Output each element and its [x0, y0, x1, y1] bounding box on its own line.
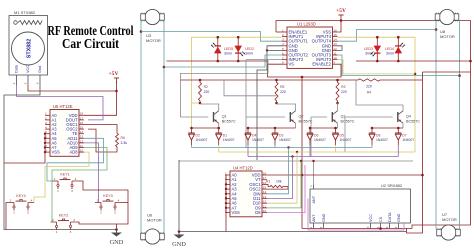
wire diode bottom leads: [274, 145, 276, 148]
svg-text:LED4: LED4: [385, 47, 394, 51]
svg-text:BC557C: BC557C: [341, 119, 355, 123]
svg-text:Data: Data: [15, 64, 19, 73]
svg-text:10: 10: [333, 56, 337, 60]
wire HT12D address pins to ground: [225, 175, 227, 232]
svg-text:3mm: 3mm: [224, 52, 232, 56]
transistor Q1 BC557C: [200, 104, 219, 111]
wire antenna drop to SRX882: [313, 161, 315, 185]
svg-text:4: 4: [118, 199, 120, 203]
svg-text:D4: D4: [252, 133, 256, 137]
wire left motors to OUTPUT1: [140, 21, 142, 234]
SRX882 pin GND: [323, 223, 325, 229]
svg-text:1: 1: [309, 226, 313, 228]
svg-text:2: 2: [54, 177, 56, 181]
svg-text:1: 1: [100, 210, 102, 214]
LED LED4: [395, 47, 402, 53]
diode D6 1N4007: [309, 128, 311, 133]
svg-text:2: 2: [24, 82, 28, 84]
svg-text:GND: GND: [172, 241, 186, 248]
svg-text:Gnd: Gnd: [38, 66, 42, 73]
svg-text:220: 220: [341, 90, 347, 94]
svg-text:CS: CS: [379, 216, 383, 222]
svg-text:220: 220: [280, 90, 286, 94]
svg-text:15: 15: [80, 126, 84, 130]
svg-text:KEY3: KEY3: [103, 194, 112, 198]
diode D8 1N4007: [371, 128, 373, 133]
wire LED vertical at x=377.3: [376, 37, 378, 61]
wire D9 (green): [267, 161, 301, 208]
svg-text:3: 3: [114, 210, 116, 214]
wire diode pair rail D2-D1: [192, 127, 219, 129]
wire band below diodes: purple row: [247, 145, 249, 157]
resistor R4 220 (inline horizontal): [356, 79, 382, 81]
svg-text:MOTOR: MOTOR: [442, 217, 457, 222]
svg-text:Q2: Q2: [299, 115, 304, 119]
svg-text:D5: D5: [340, 133, 344, 137]
svg-text:Car Circuit: Car Circuit: [62, 36, 119, 51]
svg-text:U1 L293D: U1 L293D: [297, 21, 316, 26]
transistor Q3 BC557C: [337, 103, 339, 111]
svg-text:R5: R5: [280, 85, 284, 89]
resistor R2 220: [199, 79, 202, 82]
svg-text:3: 3: [366, 226, 370, 228]
svg-text:1: 1: [57, 189, 59, 193]
svg-text:1N4007: 1N4007: [279, 138, 291, 142]
svg-text:3: 3: [282, 38, 284, 42]
svg-text:220: 220: [204, 90, 210, 94]
svg-text:3: 3: [45, 121, 47, 125]
SRX882 pin ANT (top): [313, 185, 315, 190]
svg-text:13: 13: [263, 195, 267, 199]
wire LED bottom rail left: [167, 60, 268, 62]
wire +5V to HT12E VDD: [84, 91, 117, 115]
svg-text:4: 4: [75, 177, 77, 181]
ground junction: [116, 224, 118, 230]
svg-text:Q4: Q4: [406, 115, 411, 119]
svg-text:R1: R1: [266, 180, 270, 184]
wire +5V transistor rail y=80: [180, 79, 356, 81]
svg-text:LED5: LED5: [224, 47, 233, 51]
wire +5V rail: [276, 31, 282, 33]
svg-text:3mm: 3mm: [245, 52, 253, 56]
svg-text:GND: GND: [110, 239, 124, 246]
wire INPUT2 long route (gray): [181, 60, 269, 80]
svg-text:VCC: VCC: [369, 214, 373, 222]
wire diode pair rail D4-D3: [248, 127, 296, 129]
svg-text:11: 11: [263, 204, 266, 208]
svg-text:3mm: 3mm: [365, 52, 373, 56]
wire band below diodes: gray rail: [179, 160, 413, 162]
resistor R6 3.3k (HT12E oscillator): [84, 125, 117, 132]
diode D7 1N4007: [397, 128, 399, 133]
svg-text:3: 3: [70, 230, 72, 234]
SRX882 pin GND: [398, 223, 400, 229]
motor U7 (rear-right): [441, 225, 456, 240]
svg-text:D7: D7: [402, 133, 406, 137]
svg-text:4: 4: [31, 199, 33, 203]
wire LED top rail (yellow, right): [338, 37, 416, 152]
wire band below diodes: yellow row: [218, 145, 220, 152]
LED LED2: [235, 46, 242, 52]
wire AD9 to KEY2 (green): [52, 148, 107, 223]
svg-text:6: 6: [282, 51, 284, 55]
svg-text:5: 5: [385, 226, 389, 228]
svg-text:13: 13: [333, 42, 337, 46]
wire VDD to +5V: [267, 174, 302, 176]
svg-text:220: 220: [366, 85, 372, 89]
wire diode pair rail D6-D5: [310, 127, 338, 129]
svg-text:1N4007: 1N4007: [196, 138, 208, 142]
svg-text:+5V: +5V: [336, 8, 346, 14]
wire left motors to OUTPUT2: [163, 21, 165, 234]
svg-text:1N4007: 1N4007: [402, 138, 414, 142]
encoder IC U5 HT12E: [50, 110, 79, 157]
svg-text:DATA: DATA: [388, 212, 392, 222]
motor U6 (rear-left): [145, 229, 160, 244]
svg-text:MOTOR: MOTOR: [440, 34, 455, 39]
transistor Q2 BC557C: [277, 104, 296, 111]
svg-text:1N4007: 1N4007: [252, 138, 264, 142]
driver IC U1 L293D: [287, 27, 333, 68]
wire Q2 base / INPUT2: [246, 116, 285, 118]
svg-text:KEY4: KEY4: [16, 194, 25, 198]
svg-text:BC557C: BC557C: [406, 119, 420, 123]
svg-text:2: 2: [319, 226, 323, 228]
diode D5 1N4007: [335, 128, 337, 133]
wire L293D GND pins down: [267, 46, 282, 51]
ground rail (receiver): [179, 231, 407, 233]
wire D10 (yellow): [267, 152, 297, 203]
wire rail drop at 224: [224, 80, 277, 96]
svg-text:8: 8: [282, 61, 284, 65]
wire right motors to OUTPUT4: [435, 21, 437, 230]
wire DIN (teal): [267, 148, 289, 194]
svg-text:14: 14: [333, 38, 337, 42]
svg-text:16: 16: [80, 121, 84, 125]
svg-text:MOTOR: MOTOR: [146, 38, 161, 43]
wire HT12E address pins to ground: [4, 134, 45, 163]
svg-text:D8: D8: [255, 210, 261, 215]
svg-text:D8: D8: [376, 133, 380, 137]
svg-text:2: 2: [97, 199, 99, 203]
svg-text:1: 1: [13, 210, 15, 214]
wire INPUT3 (yellow): [338, 60, 416, 74]
wire right +5V branch: [423, 71, 471, 73]
svg-text:3mm: 3mm: [386, 52, 394, 56]
wire LED bottom rail right: [356, 60, 471, 62]
svg-text:ANT: ANT: [312, 214, 316, 222]
ground GND (receiver): [178, 232, 180, 235]
svg-text:1: 1: [309, 185, 313, 187]
svg-text:1: 1: [45, 112, 47, 116]
svg-text:12: 12: [263, 200, 267, 204]
svg-text:MOTOR: MOTOR: [147, 218, 162, 223]
diode D3 1N4007: [274, 128, 276, 133]
diode D4 1N4007: [247, 128, 249, 133]
diode D2 1N4007: [191, 128, 193, 133]
svg-text:3: 3: [27, 210, 29, 214]
resistor R3 220: [336, 79, 339, 82]
svg-text:12: 12: [333, 47, 337, 51]
svg-text:U5 HT12E: U5 HT12E: [53, 104, 73, 109]
svg-text:1: 1: [225, 171, 227, 175]
svg-text:Q1: Q1: [222, 115, 227, 119]
wire right motors to OUTPUT3: [459, 21, 461, 230]
svg-text:12: 12: [80, 139, 84, 143]
diode D1 1N4007: [218, 128, 220, 133]
svg-text:1: 1: [12, 82, 16, 84]
wire AD10 to KEY3 (purple): [84, 143, 99, 203]
svg-text:STX882: STX882: [26, 39, 32, 58]
svg-text:1N4007: 1N4007: [340, 138, 352, 142]
wire Data to HT12E DOUT: [17, 85, 104, 120]
svg-text:3: 3: [71, 189, 73, 193]
svg-text:D6: D6: [314, 133, 318, 137]
svg-text:R6: R6: [121, 136, 125, 140]
svg-text:10k: 10k: [276, 180, 282, 184]
svg-text:3.3k: 3.3k: [121, 141, 128, 145]
wire KEY1/KEY3 grounds: [78, 181, 128, 224]
SRX882 pin CS: [380, 223, 382, 229]
svg-text:1: 1: [56, 230, 58, 234]
svg-text:1N4007: 1N4007: [223, 138, 235, 142]
wire receiver power rail: [302, 228, 412, 230]
svg-text:5: 5: [282, 47, 284, 51]
wire KEY4 left to ground rail: [6, 203, 8, 230]
svg-text:D2: D2: [196, 133, 200, 137]
svg-text:4: 4: [282, 42, 284, 46]
decoder IC U4 HT12D: [230, 171, 262, 217]
svg-text:KEY1: KEY1: [60, 173, 69, 177]
wire Gnd to left ground rail: [4, 85, 117, 230]
svg-text:10: 10: [263, 209, 267, 213]
svg-text:2: 2: [394, 226, 398, 228]
svg-text:LED3: LED3: [364, 47, 373, 51]
wire LED top rail (yellow, left): [192, 36, 283, 38]
svg-text:18: 18: [263, 171, 267, 175]
svg-text:D1: D1: [223, 133, 227, 137]
svg-text:VSS: VSS: [232, 210, 241, 215]
wire pink data loop: [308, 199, 404, 231]
svg-text:VS: VS: [289, 62, 295, 67]
svg-text:2: 2: [10, 199, 12, 203]
wire LED vertical at x=217.8: [217, 37, 219, 61]
svg-text:AD8: AD8: [69, 150, 78, 155]
svg-text:17: 17: [80, 116, 84, 120]
svg-text:BC557C: BC557C: [222, 119, 236, 123]
svg-text:ENABLE2: ENABLE2: [312, 62, 331, 67]
svg-text:16: 16: [333, 28, 337, 32]
svg-text:1: 1: [282, 28, 284, 32]
svg-text:10: 10: [80, 149, 84, 153]
svg-text:18: 18: [80, 112, 84, 116]
wire VS/ENABLE2 loop (+5V): [268, 64, 342, 77]
wire VCC to +5V: [28, 85, 117, 91]
wire Q1 base: [181, 80, 209, 117]
svg-text:R4: R4: [367, 91, 371, 95]
svg-text:11: 11: [333, 51, 336, 55]
svg-text:LED2: LED2: [245, 47, 254, 51]
wire +5V down to HT12D VDD: [301, 77, 303, 229]
svg-text:15: 15: [333, 33, 337, 37]
wire Q3 base: [311, 116, 327, 118]
SRX882 pin ANT: [313, 223, 315, 229]
svg-text:1N4007: 1N4007: [314, 138, 326, 142]
svg-text:1N4007: 1N4007: [376, 138, 388, 142]
motor U3 (front-left): [145, 9, 160, 24]
svg-text:ANT: ANT: [312, 195, 316, 203]
wire Q4 base: [345, 116, 393, 118]
svg-text:R3: R3: [341, 85, 345, 89]
svg-text:GND: GND: [397, 213, 401, 222]
wire AD11 to KEY1 (teal): [47, 138, 104, 181]
SRX882 pin DATA: [389, 223, 391, 229]
wire AD8 to KEY4 (yellow): [34, 152, 89, 202]
svg-text:15: 15: [263, 186, 267, 190]
svg-text:M1 STX882: M1 STX882: [14, 10, 36, 15]
wire diode pair rail D8-D7: [372, 127, 403, 129]
svg-text:U2 SRX882: U2 SRX882: [381, 183, 403, 188]
wire LED vertical at x=398.3: [397, 37, 399, 61]
svg-text:KEY2: KEY2: [59, 214, 68, 218]
ground GND (transmitter): [116, 230, 118, 233]
svg-text:VSS: VSS: [52, 150, 61, 155]
transistor Q4 BC557C: [356, 80, 403, 111]
svg-text:13: 13: [80, 135, 84, 139]
SRX882 pin VCC: [370, 223, 372, 229]
wire LED vertical at x=238.2: [237, 37, 239, 61]
wire KEY2 ground: [77, 222, 117, 224]
svg-text:2: 2: [45, 116, 47, 120]
LED LED5: [214, 47, 221, 53]
svg-text:R2: R2: [204, 85, 208, 89]
svg-text:14: 14: [263, 190, 267, 194]
svg-text:2: 2: [52, 218, 54, 222]
wire D8 (pink): [267, 165, 305, 213]
svg-text:4: 4: [45, 126, 47, 130]
svg-text:GND: GND: [322, 213, 326, 222]
resistor R5 220: [275, 79, 278, 82]
svg-text:3: 3: [36, 82, 40, 84]
motor U8 (front-right): [439, 9, 454, 24]
wire band below diodes: teal row: [191, 145, 193, 148]
svg-text:4: 4: [73, 218, 75, 222]
svg-text:+5V: +5V: [108, 71, 118, 77]
LED LED3: [374, 46, 381, 52]
wire +5V cross link (right): [302, 174, 423, 176]
svg-text:7: 7: [282, 56, 284, 60]
svg-text:VCC: VCC: [26, 65, 30, 73]
svg-text:11: 11: [80, 144, 83, 148]
wire D11 (purple): [267, 157, 293, 199]
svg-text:9: 9: [333, 61, 335, 65]
svg-text:U4 HT12D: U4 HT12D: [233, 165, 253, 170]
svg-text:D3: D3: [279, 133, 283, 137]
svg-text:2: 2: [282, 33, 284, 37]
svg-text:14: 14: [80, 130, 84, 134]
